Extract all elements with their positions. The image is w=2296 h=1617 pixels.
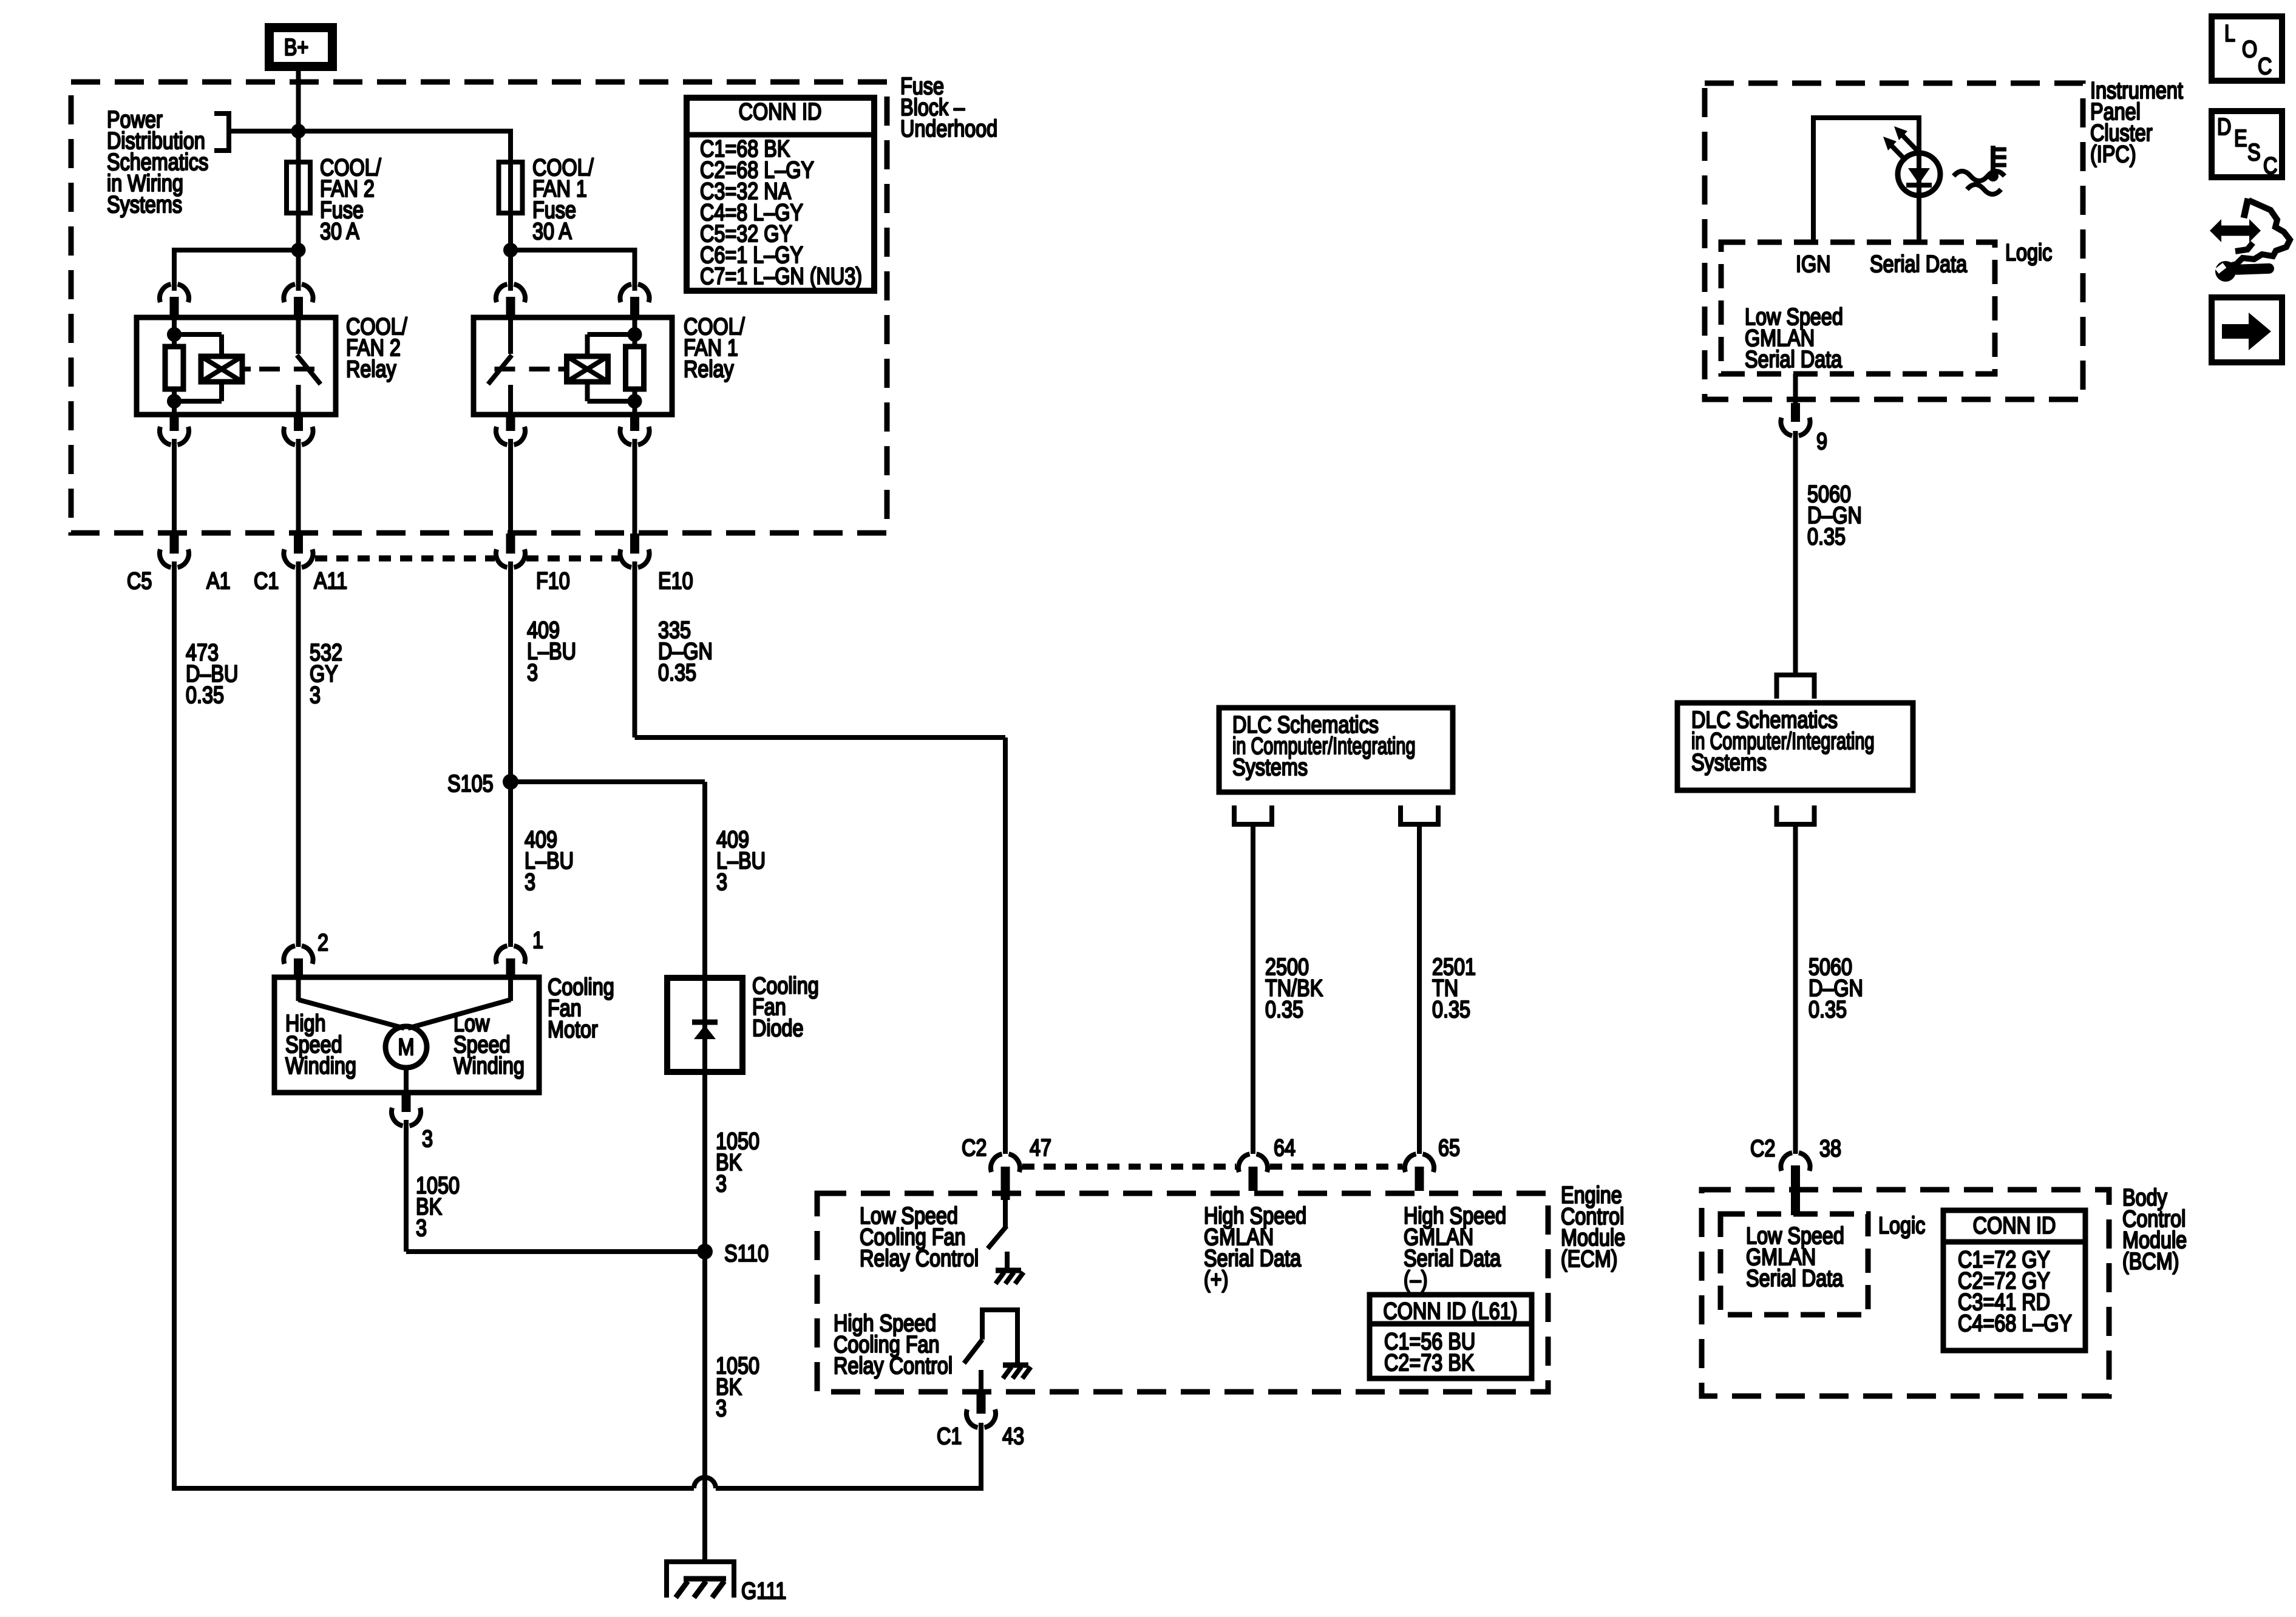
BCM logic dashed box <box>1720 1214 1868 1315</box>
connector relay1 pin87 out <box>620 415 649 445</box>
node fuse1 branch <box>503 243 518 257</box>
icon forward arrow box <box>2212 297 2282 362</box>
svg-text:C2: C2 <box>1750 1135 1775 1162</box>
ECM low speed relay control switch <box>1003 1200 1008 1227</box>
svg-text:IGN: IGN <box>1796 251 1831 277</box>
ECM high speed relay control switch <box>980 1312 985 1340</box>
connector row dotted line <box>315 555 495 561</box>
svg-text:M: M <box>398 1034 415 1060</box>
wire 5060 to DLC2 <box>1793 431 1798 675</box>
svg-text:C2=73 BK: C2=73 BK <box>1384 1349 1475 1376</box>
wire S105 to diode <box>511 779 705 784</box>
wire crossover hop over ground wire <box>694 1477 716 1488</box>
wire 2501 TN <box>1417 824 1422 1154</box>
svg-text:C4=68 L–GY: C4=68 L–GY <box>1958 1310 2072 1337</box>
IPC indicator LED <box>1898 153 1940 195</box>
svg-text:Diode: Diode <box>752 1015 804 1042</box>
bracket DLC1 right <box>1398 805 1441 826</box>
connector E10 <box>620 534 649 568</box>
svg-text:E: E <box>2234 125 2247 152</box>
fuse COOL/FAN 2 30A <box>287 162 310 213</box>
svg-text:3: 3 <box>310 682 321 708</box>
svg-text:47: 47 <box>1030 1134 1051 1161</box>
conn id table (BCM) <box>1943 1210 2085 1351</box>
connector relay2 pin30 <box>284 284 313 317</box>
bracket below DLC2 <box>1775 805 1817 826</box>
svg-text:C7=1 L–GN (NU3): C7=1 L–GN (NU3) <box>700 263 862 290</box>
connector IPC pin9 <box>1781 403 1810 436</box>
svg-text:O: O <box>2242 36 2257 63</box>
svg-text:Winding: Winding <box>453 1053 525 1079</box>
svg-text:S105: S105 <box>447 770 494 797</box>
svg-text:Motor: Motor <box>548 1016 598 1043</box>
svg-text:C: C <box>2258 53 2272 80</box>
connector relay1 pin86 <box>620 284 649 317</box>
svg-text:0.35: 0.35 <box>1809 996 1847 1023</box>
svg-text:(BCM): (BCM) <box>2122 1248 2179 1275</box>
svg-text:Relay: Relay <box>346 356 396 382</box>
svg-text:3: 3 <box>527 659 538 686</box>
fuse COOL/FAN 1 30A <box>499 162 523 213</box>
IPC logic dashed box <box>1721 242 1995 374</box>
relay1 coil linkage dashes <box>495 367 515 371</box>
wire 473 D-BU down <box>172 561 177 1488</box>
wire relay2 legs to fuseblock edge <box>172 439 177 534</box>
svg-text:CONN ID: CONN ID <box>739 98 822 125</box>
svg-text:0.35: 0.35 <box>1432 996 1470 1023</box>
svg-text:0.35: 0.35 <box>1807 523 1846 550</box>
svg-text:L: L <box>2224 20 2235 47</box>
connector relay2 pin85 out <box>160 415 189 445</box>
relay2 coil linkage dashes <box>242 367 251 371</box>
svg-text:9: 9 <box>1816 428 1827 455</box>
diode box <box>667 978 742 1072</box>
icon LOC box <box>2212 16 2282 81</box>
svg-text:3: 3 <box>525 869 535 895</box>
svg-text:38: 38 <box>1819 1135 1841 1162</box>
svg-text:30 A: 30 A <box>532 218 572 245</box>
svg-text:43: 43 <box>1002 1423 1024 1449</box>
node S105 splice <box>503 774 518 790</box>
icon adjust wrench <box>2215 261 2236 282</box>
diode wire through <box>702 978 707 1072</box>
svg-text:Systems: Systems <box>107 191 182 218</box>
svg-text:0.35: 0.35 <box>658 659 696 686</box>
node S110 splice <box>697 1244 713 1259</box>
bracket DLC1 left <box>1232 805 1274 826</box>
svg-text:CONN ID (L61): CONN ID (L61) <box>1383 1298 1517 1324</box>
svg-text:64: 64 <box>1274 1134 1296 1161</box>
svg-text:3: 3 <box>716 869 727 895</box>
wire 335 D-GN to ECM <box>633 561 637 737</box>
node fuse2 branch <box>291 243 306 257</box>
node power-distribution junction <box>291 124 306 138</box>
connector motor pin3 out <box>392 1094 421 1126</box>
wire IPC pin9 exit <box>1793 374 1798 404</box>
wire B+ down to COOL/FAN 2 fuse <box>296 71 301 160</box>
svg-text:S: S <box>2247 139 2261 166</box>
connector ECM 64 <box>1238 1154 1268 1191</box>
svg-text:A11: A11 <box>314 568 347 594</box>
motor M circle <box>385 1026 427 1068</box>
svg-text:Winding: Winding <box>285 1053 356 1079</box>
svg-text:Logic: Logic <box>2005 239 2052 266</box>
svg-text:3: 3 <box>716 1170 727 1197</box>
IPC internal circuit <box>1811 118 1816 242</box>
wire fuse2 to relay2 branch <box>296 215 301 291</box>
wire S105 to motor pin1 <box>508 782 513 947</box>
svg-text:C1: C1 <box>937 1423 962 1449</box>
svg-text:Systems: Systems <box>1232 754 1308 781</box>
svg-text:(IPC): (IPC) <box>2090 141 2136 168</box>
svg-text:Systems: Systems <box>1691 749 1767 776</box>
connector motor pin1 <box>496 946 525 978</box>
svg-text:E10: E10 <box>658 568 693 594</box>
relay1 box <box>474 317 672 415</box>
relay2 switch <box>296 317 301 354</box>
wire fuse1 to relay1 branch <box>508 215 513 291</box>
ECM high speed switch ground <box>1003 1365 1031 1378</box>
svg-text:C2: C2 <box>962 1134 987 1161</box>
connector BCM C2-38 <box>1781 1153 1810 1215</box>
svg-text:F10: F10 <box>536 568 570 594</box>
svg-text:S110: S110 <box>724 1240 769 1267</box>
svg-text:0.35: 0.35 <box>186 682 224 708</box>
ECM internal dotted line <box>1022 1164 1236 1170</box>
svg-text:Underhood: Underhood <box>900 115 997 142</box>
relay1 switch <box>508 317 513 354</box>
svg-text:0.35: 0.35 <box>1265 996 1303 1023</box>
svg-text:Relay Control: Relay Control <box>860 1245 979 1272</box>
ground G111 symbol <box>667 1559 734 1564</box>
svg-text:C1: C1 <box>254 568 279 594</box>
relay2 coil <box>174 332 222 337</box>
svg-text:Serial Data: Serial Data <box>1746 1265 1843 1292</box>
ECM low speed switch ground <box>996 1270 1024 1284</box>
wire relay1 legs to fuseblock edge <box>508 439 513 534</box>
svg-text:D: D <box>2217 114 2231 140</box>
wire 473 horizontal left segment <box>172 1486 694 1491</box>
wire motor ground to S110 <box>404 1120 409 1252</box>
IPC coolant temperature icon <box>1954 171 2005 181</box>
bracket above DLC2 <box>1775 673 1817 699</box>
icon DESC box <box>2212 111 2282 177</box>
connector C5/A1 <box>160 534 189 568</box>
connector ECM C1-43 out <box>966 1394 996 1428</box>
wire 2500 TN/BK <box>1251 824 1255 1154</box>
svg-text:(–): (–) <box>1404 1266 1428 1293</box>
wire power distribution tap <box>229 129 511 134</box>
connector C1/A11 <box>284 534 313 568</box>
BCM dashed box <box>1702 1190 2109 1396</box>
svg-text:30 A: 30 A <box>320 218 359 245</box>
connector ECM 65 <box>1405 1154 1434 1191</box>
conn id table (fuse block) <box>687 98 874 291</box>
motor box <box>274 977 539 1093</box>
relay2 box <box>137 317 336 415</box>
conn id table (ECM L61) <box>1370 1295 1532 1378</box>
IPC dashed box <box>1705 83 2083 399</box>
svg-text:Relay: Relay <box>684 356 734 382</box>
svg-text:B+: B+ <box>284 34 308 61</box>
icon adjust hand outline <box>2244 198 2248 218</box>
connector relay2 pin87 out <box>284 415 313 445</box>
relay1 coil resistor <box>628 327 642 342</box>
svg-text:Serial Data: Serial Data <box>1745 346 1842 373</box>
svg-text:3: 3 <box>416 1215 427 1241</box>
connector motor pin2 <box>284 946 313 978</box>
wire 409 F10 down to S105 <box>508 561 513 782</box>
power distribution bracket <box>214 111 231 116</box>
wire 473 horizontal right segment <box>716 1486 981 1491</box>
svg-text:3: 3 <box>422 1125 433 1152</box>
connector relay2 pin86 <box>160 284 189 317</box>
relay1 coil <box>588 332 635 337</box>
connector ECM C2-47 <box>991 1154 1020 1200</box>
relay2 coil resistor <box>167 327 182 342</box>
svg-text:Serial Data: Serial Data <box>1870 251 1967 277</box>
svg-text:3: 3 <box>716 1395 727 1422</box>
motor windings Y <box>296 977 301 1001</box>
svg-text:(ECM): (ECM) <box>1561 1246 1617 1272</box>
DLC schematics box (BCM side) <box>1677 703 1913 790</box>
svg-text:CONN ID: CONN ID <box>1973 1212 2056 1239</box>
svg-text:G111: G111 <box>741 1578 786 1604</box>
svg-text:Logic: Logic <box>1878 1212 1925 1239</box>
svg-text:C: C <box>2263 152 2277 179</box>
icon adjust double arrow <box>2210 219 2261 242</box>
svg-text:65: 65 <box>1438 1134 1460 1161</box>
power feed B+ box <box>270 28 333 67</box>
svg-text:2: 2 <box>318 929 328 956</box>
connector relay1 pin85 out <box>496 415 525 445</box>
svg-text:1: 1 <box>532 927 543 954</box>
fuse block - underhood dashed box <box>71 82 887 533</box>
svg-text:C5: C5 <box>127 568 152 594</box>
connector relay1 pin30 <box>496 284 525 317</box>
wire 5060 to BCM <box>1793 824 1798 1154</box>
svg-text:A1: A1 <box>206 568 231 594</box>
diode symbol <box>692 1020 718 1025</box>
svg-text:(+): (+) <box>1204 1266 1228 1293</box>
DLC schematics box (ECM side) <box>1219 708 1453 792</box>
wire diode/S110 down to G111 <box>702 1072 707 1562</box>
wire motor pin3 <box>404 1068 409 1093</box>
connector F10 <box>496 534 525 568</box>
wire 532 GY down <box>296 561 301 947</box>
ECM dashed box <box>817 1193 1548 1392</box>
svg-text:Relay Control: Relay Control <box>834 1352 953 1379</box>
